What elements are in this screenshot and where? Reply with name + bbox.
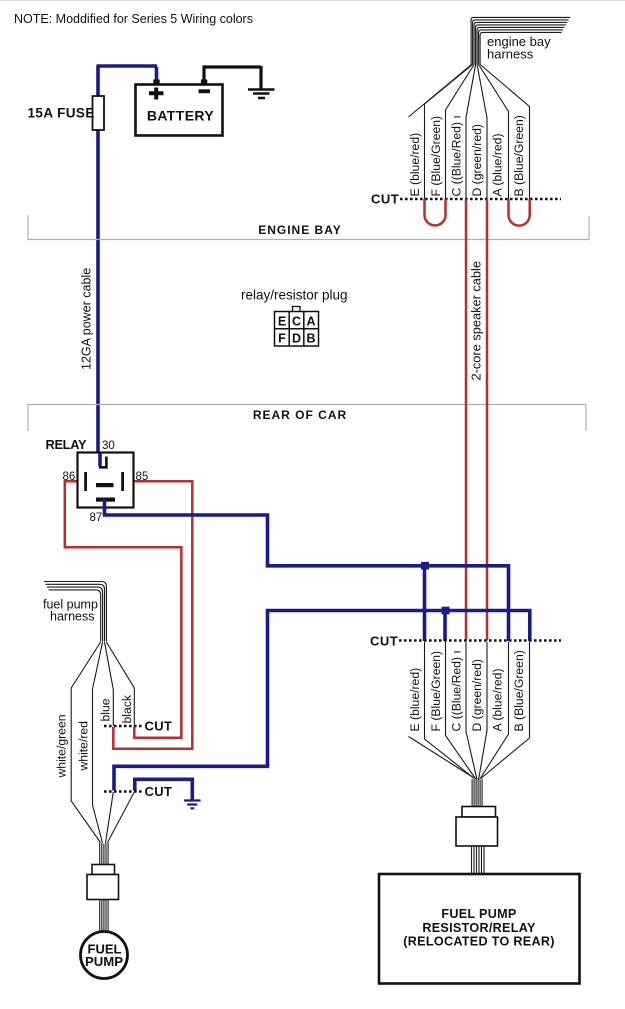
svg-text:F (Blue/Green): F (Blue/Green) <box>429 116 443 197</box>
svg-text:C ((Blue/Red) ı: C ((Blue/Red) ı <box>450 115 464 196</box>
svg-text:F: F <box>278 332 286 346</box>
cut dotted line (engine bay) <box>400 198 561 201</box>
relay pin 86 blade <box>84 472 87 491</box>
fuse F1 15A <box>93 96 105 130</box>
svg-text:BATTERY: BATTERY <box>147 108 215 124</box>
wire: blue stub from relay pin 87 <box>103 499 107 510</box>
svg-text:RELAY: RELAY <box>46 437 87 452</box>
svg-text:D: D <box>292 332 301 346</box>
relay coil bar <box>96 483 114 487</box>
svg-text:relay/resistor plug: relay/resistor plug <box>241 288 348 303</box>
fuel pump harness bundle to connector <box>100 843 108 865</box>
svg-text:blue: blue <box>99 698 113 721</box>
svg-text:C ((Blue/Red) ı: C ((Blue/Red) ı <box>450 650 464 731</box>
svg-text:87: 87 <box>90 512 103 524</box>
battery - symbol <box>199 89 211 93</box>
relay K1 box <box>78 453 134 508</box>
wire: red from relay 85 to blue stub at cut <box>113 481 192 749</box>
wire: blue 12GA from fuse top to battery + <box>97 66 158 468</box>
wire: blue stub down to battery + terminal <box>155 67 159 80</box>
wire: blue stub into relay pin 30 <box>98 454 102 467</box>
relay pin 30 blade <box>99 457 108 468</box>
engine bay harness bundle <box>471 17 570 64</box>
ground (fuel pump black wire) <box>184 801 201 809</box>
pump connector large <box>87 875 119 900</box>
svg-text:A: A <box>306 315 315 329</box>
ground (battery) <box>248 90 275 99</box>
fuel pump harness bundle <box>44 582 106 642</box>
pump connector small <box>92 865 115 875</box>
battery B1 <box>136 85 223 136</box>
relay/resistor plug key notch <box>293 307 301 313</box>
svg-text:PUMP: PUMP <box>85 954 123 969</box>
svg-text:ENGINE BAY: ENGINE BAY <box>258 223 342 237</box>
engine bay divider <box>28 215 589 240</box>
relay pin 87 bar <box>96 498 115 502</box>
svg-text:15A FUSE: 15A FUSE <box>28 106 95 121</box>
page top edge line <box>0 0 625 2</box>
svg-text:harness: harness <box>50 610 94 624</box>
wire: black battery negative to ground <box>203 66 262 89</box>
wire: blue from pump-side black stub to ground <box>135 779 193 800</box>
cut dotted line (blue/black upper) <box>104 725 143 728</box>
rear of car divider <box>28 405 586 432</box>
wire: blue from pump-side blue stub to rear harness F and B <box>114 611 530 791</box>
svg-text:D (green/red): D (green/red) <box>470 659 484 731</box>
svg-text:B: B <box>306 332 315 346</box>
svg-text:85: 85 <box>136 471 149 483</box>
svg-text:C: C <box>292 315 301 329</box>
wire: blue from relay 87 to rear harness E and A <box>105 498 509 641</box>
svg-text:E: E <box>278 315 286 329</box>
svg-text:white/red: white/red <box>77 721 91 771</box>
battery + symbol <box>149 88 164 100</box>
svg-text:B (Blue/Green): B (Blue/Green) <box>512 115 526 196</box>
svg-text:CUT: CUT <box>370 634 398 649</box>
rear harness label channels <box>409 642 530 780</box>
svg-text:CUT: CUT <box>371 192 399 207</box>
rear harness bundle to connector <box>472 779 482 807</box>
svg-text:CUT: CUT <box>145 784 173 799</box>
jumper loop E-F (red) <box>425 199 446 226</box>
relay/resistor plug connector grid <box>275 312 319 347</box>
svg-text:F (Blue/Green): F (Blue/Green) <box>429 651 443 732</box>
jumper loop A-B (red) <box>509 199 530 226</box>
wire: blue drop to F <box>443 611 447 642</box>
rear connector large <box>456 817 498 846</box>
engine bay harness fan-out <box>409 65 530 200</box>
svg-text:E (blue/red): E (blue/red) <box>408 668 422 732</box>
wire: blue drop to E <box>423 566 427 641</box>
svg-text:A (blue/red): A (blue/red) <box>491 133 505 196</box>
wire: red from relay 86 to black stub at cut <box>65 481 182 738</box>
pump wires to fuel pump <box>100 900 108 933</box>
svg-text:NOTE: Moddified for Series 5 W: NOTE: Moddified for Series 5 Wiring colo… <box>14 12 253 26</box>
fuel pump M1 <box>81 932 128 979</box>
battery - terminal stub <box>201 80 207 86</box>
svg-text:30: 30 <box>102 440 115 452</box>
svg-text:12GA power cable: 12GA power cable <box>80 268 94 370</box>
svg-text:(RELOCATED TO REAR): (RELOCATED TO REAR) <box>403 935 554 949</box>
svg-text:E (blue/red): E (blue/red) <box>408 133 422 197</box>
svg-text:D (green/red): D (green/red) <box>470 124 484 196</box>
junction F <box>442 607 450 615</box>
relay pin 85 blade <box>121 472 124 491</box>
battery + terminal stub <box>153 80 159 86</box>
svg-text:2-core speaker cable: 2-core speaker cable <box>469 261 484 381</box>
fuel pump resistor/relay box <box>379 874 580 984</box>
svg-text:CUT: CUT <box>145 719 173 734</box>
fuel pump harness fan-out <box>71 642 134 843</box>
svg-text:REAR OF CAR: REAR OF CAR <box>253 408 347 422</box>
svg-text:A (blue/red): A (blue/red) <box>491 668 505 731</box>
svg-text:RESISTOR/RELAY: RESISTOR/RELAY <box>422 921 536 935</box>
cut dotted line (blue/black lower) <box>104 790 143 793</box>
svg-text:black: black <box>120 694 134 723</box>
svg-text:white/green: white/green <box>55 714 69 778</box>
junction E <box>421 562 429 570</box>
rear connector wires to resistor box <box>472 846 485 874</box>
svg-text:FUEL PUMP: FUEL PUMP <box>441 907 516 921</box>
cut dotted line (rear harness) <box>399 639 561 642</box>
rear connector small <box>462 807 496 818</box>
svg-text:harness: harness <box>487 47 534 62</box>
svg-text:B (Blue/Green): B (Blue/Green) <box>512 650 526 731</box>
2-core speaker cable wires C and D (red) <box>466 199 487 641</box>
svg-text:86: 86 <box>63 471 76 483</box>
